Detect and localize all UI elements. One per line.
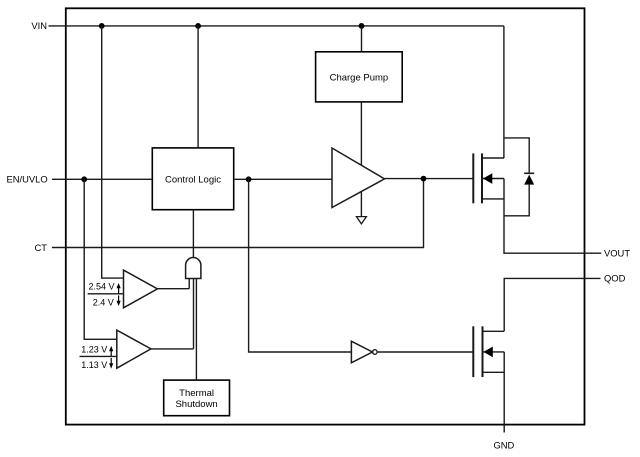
pin QOD label bbox=[604, 273, 626, 284]
label 1.13 V falling threshold bbox=[81, 360, 107, 370]
transistor Q1 drain stub bbox=[482, 157, 504, 159]
wire EN/UVLO into Control Logic bbox=[52, 178, 152, 180]
node EN sense junction bbox=[81, 176, 87, 182]
svg-text:GND: GND bbox=[493, 439, 514, 450]
pin CT label bbox=[35, 242, 48, 253]
transistor Q2 QOD FET gate plate bbox=[472, 326, 474, 377]
svg-text:EN/UVLO: EN/UVLO bbox=[7, 174, 48, 185]
transistor Q1 source stub bbox=[482, 198, 504, 200]
wire VIN rail bbox=[49, 25, 504, 27]
wire VIN down to Q1 drain bbox=[503, 26, 505, 158]
svg-text:QOD: QOD bbox=[604, 273, 626, 284]
wire VIN drop to Control Logic bbox=[197, 26, 199, 148]
transistor Q2 source stub bbox=[483, 371, 505, 373]
wire EN sense drop to 1.23V comparator bbox=[84, 179, 117, 339]
node driver input / inverter branch junction bbox=[246, 176, 252, 182]
comparator U4 EN bbox=[117, 330, 151, 368]
svg-text:VOUT: VOUT bbox=[604, 248, 630, 259]
block Charge Pump bbox=[316, 52, 403, 102]
svg-text:2.4 V: 2.4 V bbox=[93, 297, 114, 307]
wire inverter output to Q2 gate bbox=[377, 351, 473, 353]
ground arrow under driver bbox=[356, 217, 366, 224]
wire UVLO comparator output bbox=[157, 288, 189, 290]
transistor Q1 pass FET gate plate bbox=[472, 153, 474, 203]
block Control Logic bbox=[152, 148, 233, 210]
comparator U3 UVLO bbox=[124, 270, 158, 308]
transistor Q2 body stub with arrow bbox=[483, 347, 505, 358]
svg-text:CT: CT bbox=[35, 242, 48, 253]
svg-text:Control Logic: Control Logic bbox=[165, 174, 221, 185]
wire Control Logic output to driver bbox=[234, 178, 332, 180]
wire AND input stub from UVLO comparator bbox=[188, 279, 190, 289]
wire driver return stub bbox=[360, 192, 362, 217]
label 1.23 V rising threshold bbox=[81, 344, 107, 354]
wire branch to inverter bbox=[249, 179, 352, 352]
node VIN-comparator sense junction bbox=[99, 23, 105, 29]
node VIN-charge pump junction bbox=[359, 23, 365, 29]
wire EN threshold input bbox=[80, 355, 117, 357]
wire AND output to Control Logic bbox=[192, 210, 194, 258]
transistor Q2 channel bbox=[482, 326, 484, 377]
svg-text:VIN: VIN bbox=[31, 20, 47, 31]
node VIN-control logic junction bbox=[195, 23, 201, 29]
wire driver output to Q1 gate bbox=[385, 178, 474, 180]
arrow down 2.4V bbox=[117, 296, 121, 307]
wire AND input stub from EN comparator bbox=[193, 279, 195, 349]
pin GND label bbox=[493, 439, 514, 450]
wire Charge Pump to driver bbox=[360, 102, 362, 165]
svg-text:Charge Pump: Charge Pump bbox=[330, 72, 389, 83]
svg-text:Shutdown: Shutdown bbox=[175, 399, 217, 410]
transistor Q1 channel bbox=[481, 153, 483, 203]
pin VOUT label bbox=[604, 248, 630, 259]
wire UVLO threshold input bbox=[88, 293, 124, 295]
svg-text:1.13 V: 1.13 V bbox=[81, 360, 107, 370]
wire VIN drop to Charge Pump bbox=[361, 26, 363, 52]
svg-text:2.54 V: 2.54 V bbox=[88, 282, 114, 292]
transistor Q2 drain stub bbox=[483, 330, 505, 332]
wire Q1 source to VOUT bbox=[504, 179, 601, 254]
pin EN/UVLO label bbox=[7, 174, 48, 185]
svg-text:Thermal: Thermal bbox=[179, 388, 214, 399]
inverter U5 bbox=[351, 341, 377, 363]
IC boundary box bbox=[66, 8, 585, 424]
wire EN comparator output bbox=[151, 348, 194, 350]
wire VIN sense drop to UVLO comparator bbox=[102, 26, 124, 278]
label 2.54 V rising threshold bbox=[88, 282, 114, 292]
label 2.4 V falling threshold bbox=[93, 297, 114, 307]
arrow down 1.13V bbox=[109, 358, 113, 369]
node CT junction on gate wire bbox=[421, 176, 427, 182]
block Thermal Shutdown bbox=[164, 380, 230, 416]
wire Q2 source to GND pin bbox=[503, 352, 505, 433]
wire QOD to Q2 drain bbox=[504, 278, 600, 331]
wire CT to gate drive node bbox=[52, 179, 424, 248]
wire AND input stub from Thermal Shutdown bbox=[195, 279, 197, 381]
transistor Q1 body stub with arrow bbox=[482, 173, 504, 184]
driver amplifier U1 bbox=[332, 148, 385, 208]
arrow up 2.54V bbox=[117, 283, 121, 294]
svg-text:1.23 V: 1.23 V bbox=[81, 344, 107, 354]
AND gate U2 bbox=[186, 258, 201, 279]
diode D1 body diode bbox=[504, 138, 534, 216]
arrow up 1.23V bbox=[109, 346, 113, 356]
pin VIN label bbox=[31, 20, 47, 31]
